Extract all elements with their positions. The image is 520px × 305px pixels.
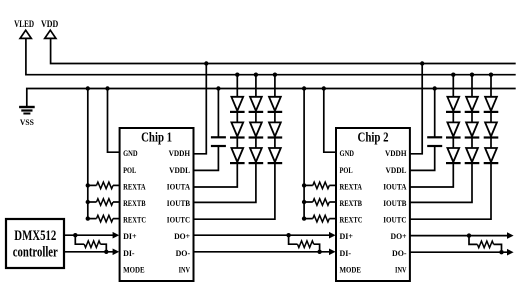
- svg-text:DO+: DO+: [174, 231, 190, 241]
- wire DO+ chip1 to DI+ chip2: [194, 234, 330, 236]
- capacitor C2: [410, 86, 442, 170]
- svg-text:DI-: DI-: [340, 248, 352, 258]
- pin REXTA label Chip 2: [340, 181, 363, 191]
- ground VSS: [19, 107, 35, 127]
- svg-text:DI+: DI+: [340, 231, 354, 241]
- arrow DI+ chip 2: [329, 232, 336, 239]
- pin GND label Chip 2: [340, 148, 355, 158]
- wire GND chip 2: [322, 86, 336, 152]
- svg-text:VDDL: VDDL: [169, 165, 190, 175]
- DMX512 controller box: [6, 219, 64, 268]
- pin REXTC label Chip 2: [340, 215, 363, 225]
- arrow DO+ out: [507, 232, 514, 239]
- pin DO- label Chip 2: [392, 248, 407, 258]
- chip Chip 2 box: [336, 128, 410, 281]
- pin DO- label Chip 1: [176, 248, 191, 258]
- LED string A chip 2: [410, 73, 461, 188]
- svg-text:IOUTC: IOUTC: [167, 215, 190, 225]
- pin MODE label Chip 2: [340, 264, 362, 274]
- svg-text:POL: POL: [123, 165, 136, 175]
- pin DI- label Chip 1: [123, 248, 135, 258]
- resistor termination R3: [467, 233, 504, 254]
- pin IOUTC label Chip 2: [383, 215, 406, 225]
- svg-text:REXTA: REXTA: [340, 181, 363, 191]
- pin REXTA label Chip 1: [123, 181, 146, 191]
- svg-text:VDDL: VDDL: [386, 165, 407, 175]
- pin IOUTA label Chip 2: [383, 181, 407, 191]
- wire VDDH chip 2: [410, 61, 425, 154]
- pin VDDH label Chip 2: [385, 148, 407, 158]
- arrow DI- chip 2: [329, 249, 336, 256]
- resistor REXTC chip 2: [304, 215, 336, 222]
- resistor REXTA chip 1: [88, 182, 120, 189]
- wire VDDH chip 1: [194, 61, 209, 154]
- svg-text:DO+: DO+: [391, 231, 407, 241]
- wire GND chip 1: [105, 86, 119, 152]
- pin IOUTB label Chip 1: [167, 198, 190, 208]
- svg-text:VDDH: VDDH: [385, 148, 407, 158]
- wire VDD bus: [51, 38, 516, 63]
- svg-text:Chip 2: Chip 2: [358, 130, 389, 145]
- wire DMX DI-: [64, 251, 113, 253]
- arrow DI- chip 1: [113, 249, 120, 256]
- svg-text:INV: INV: [179, 264, 191, 274]
- svg-text:DMX512: DMX512: [14, 228, 56, 244]
- svg-text:VLED: VLED: [14, 20, 34, 30]
- svg-text:DO-: DO-: [392, 248, 407, 258]
- svg-text:IOUTB: IOUTB: [383, 198, 406, 208]
- pin REXTC label Chip 1: [123, 215, 146, 225]
- pin REXTB label Chip 2: [340, 198, 363, 208]
- resistor REXTC chip 1: [88, 215, 120, 222]
- pin DI+ label Chip 2: [340, 231, 354, 241]
- chip Chip 1 box: [120, 128, 194, 281]
- pin GND label Chip 1: [123, 148, 138, 158]
- capacitor C1: [194, 86, 226, 170]
- svg-text:IOUTA: IOUTA: [383, 181, 407, 191]
- svg-text:POL: POL: [340, 165, 353, 175]
- svg-text:REXTB: REXTB: [123, 198, 146, 208]
- svg-text:DO-: DO-: [176, 248, 191, 258]
- pin MODE label Chip 1: [123, 264, 145, 274]
- arrow DI+ chip 1: [113, 232, 120, 239]
- wire VLED bus: [26, 38, 516, 74]
- resistor termination R2: [286, 233, 321, 254]
- pin VDDL label Chip 1: [169, 165, 190, 175]
- power symbol VDD: [41, 20, 58, 38]
- svg-text:VDDH: VDDH: [169, 148, 191, 158]
- LED string B chip 2: [410, 73, 479, 203]
- pin DO+ label Chip 1: [174, 231, 190, 241]
- resistor REXTA chip 2: [304, 182, 336, 189]
- wire VSS bus: [27, 89, 516, 107]
- pin INV label Chip 2: [395, 264, 407, 274]
- svg-text:INV: INV: [395, 264, 407, 274]
- svg-text:DI-: DI-: [123, 248, 135, 258]
- svg-text:GND: GND: [123, 148, 138, 158]
- pin DO+ label Chip 2: [391, 231, 407, 241]
- svg-text:REXTC: REXTC: [340, 215, 363, 225]
- pin DI+ label Chip 1: [123, 231, 137, 241]
- resistor REXTB chip 1: [88, 199, 120, 206]
- wire DO+ chip 2 out: [410, 235, 507, 237]
- LED string C chip 1: [194, 73, 283, 220]
- svg-text:REXTC: REXTC: [123, 215, 146, 225]
- svg-text:VDD: VDD: [41, 20, 58, 30]
- wire DO- chip 2 out: [410, 251, 507, 253]
- svg-text:REXTB: REXTB: [340, 198, 363, 208]
- pin DI- label Chip 2: [340, 248, 352, 258]
- svg-text:DI+: DI+: [123, 231, 137, 241]
- node REXT bus chip 2: [302, 86, 306, 221]
- wire DMX DI+: [64, 234, 113, 236]
- svg-text:IOUTC: IOUTC: [383, 215, 406, 225]
- pin POL label Chip 2: [340, 165, 353, 175]
- resistor termination R1: [73, 233, 108, 254]
- svg-text:IOUTB: IOUTB: [167, 198, 190, 208]
- wire DO- chip1 to DI- chip2: [194, 251, 330, 253]
- LED string A chip 1: [194, 73, 245, 188]
- pin IOUTC label Chip 1: [167, 215, 190, 225]
- pin INV label Chip 1: [179, 264, 191, 274]
- arrow DO- out: [507, 249, 514, 256]
- resistor REXTB chip 2: [304, 199, 336, 206]
- svg-text:GND: GND: [340, 148, 355, 158]
- pin VDDL label Chip 2: [386, 165, 407, 175]
- node REXT bus chip 1: [86, 86, 90, 221]
- power symbol VLED: [14, 20, 34, 38]
- pin IOUTB label Chip 2: [383, 198, 406, 208]
- svg-text:MODE: MODE: [123, 264, 145, 274]
- svg-text:controller: controller: [13, 245, 58, 261]
- LED string B chip 1: [194, 73, 264, 203]
- svg-text:VSS: VSS: [20, 117, 34, 127]
- svg-text:MODE: MODE: [340, 264, 362, 274]
- svg-text:Chip 1: Chip 1: [141, 130, 172, 145]
- pin REXTB label Chip 1: [123, 198, 146, 208]
- pin VDDH label Chip 1: [169, 148, 191, 158]
- svg-text:IOUTA: IOUTA: [167, 181, 191, 191]
- pin POL label Chip 1: [123, 165, 136, 175]
- svg-text:REXTA: REXTA: [123, 181, 146, 191]
- LED string C chip 2: [410, 73, 498, 220]
- pin IOUTA label Chip 1: [167, 181, 191, 191]
